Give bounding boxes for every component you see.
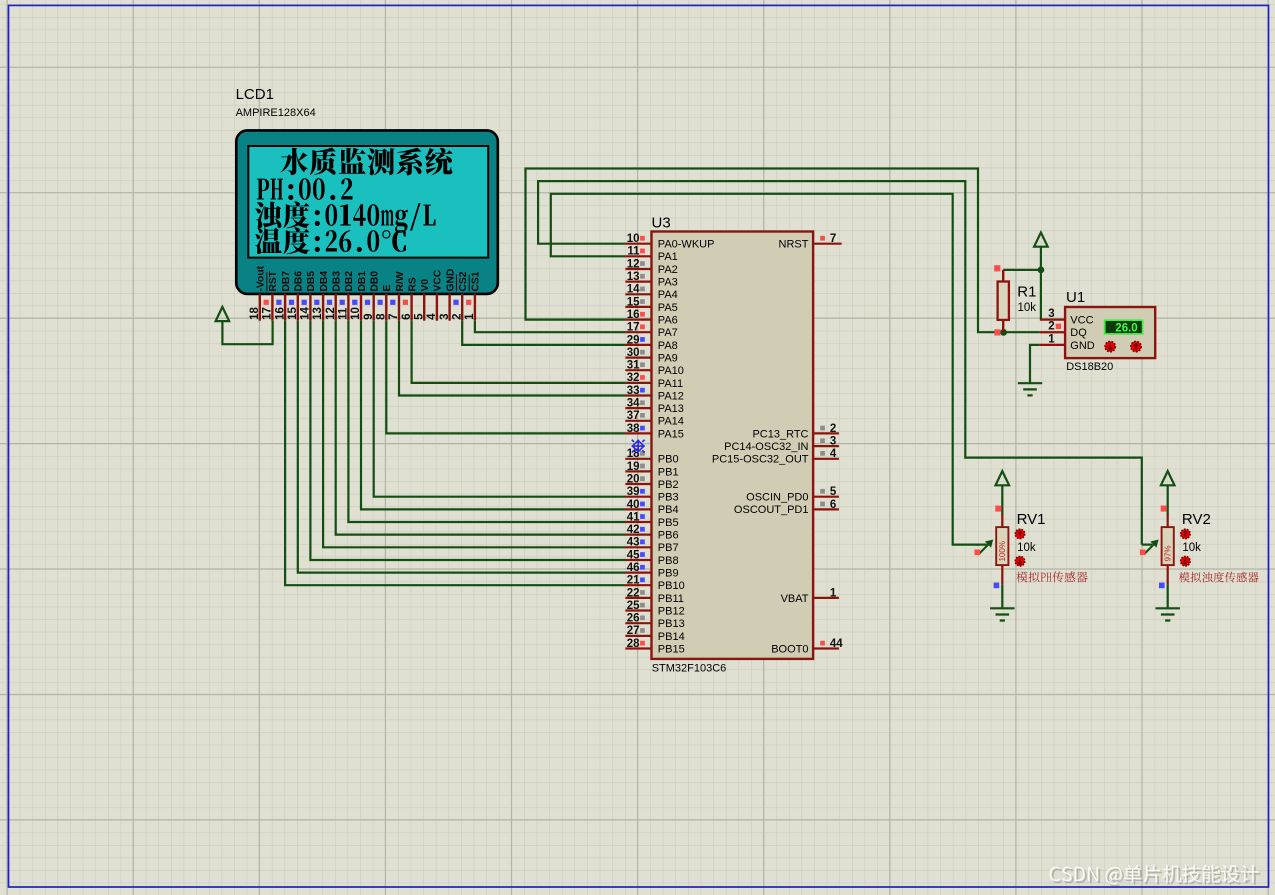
svg-text:39: 39 — [627, 486, 640, 498]
svg-text:PA5: PA5 — [658, 302, 678, 314]
svg-text:1: 1 — [830, 587, 837, 599]
svg-text:29: 29 — [627, 334, 640, 346]
svg-text:2: 2 — [1048, 321, 1054, 333]
svg-text:RS: RS — [407, 277, 418, 291]
svg-text:E: E — [382, 285, 393, 292]
svg-text:5: 5 — [413, 313, 425, 320]
RV1 button up — [1015, 529, 1025, 539]
svg-text:4: 4 — [426, 313, 438, 320]
svg-text:PA6: PA6 — [658, 315, 678, 327]
U3 pin 14 (PA4) — [625, 284, 677, 302]
svg-text:VBAT: VBAT — [781, 593, 809, 605]
svg-text:18: 18 — [249, 307, 261, 320]
svg-text:10k: 10k — [1182, 542, 1201, 554]
svg-text:28: 28 — [627, 638, 640, 650]
U1 pin 1 (GND) — [1040, 333, 1095, 352]
svg-text:PA0-WKUP: PA0-WKUP — [658, 239, 715, 251]
potentiometer RV2 10k — [1140, 506, 1211, 589]
svg-text:RST: RST — [268, 270, 279, 291]
U1 button down — [1105, 341, 1115, 351]
svg-text:45: 45 — [627, 549, 640, 561]
U3 pin 20 (PB2) — [625, 473, 678, 491]
wire LCD DB0 (pin 9) to U3 PB3 — [374, 321, 626, 497]
svg-text:-Vout: -Vout — [256, 265, 267, 291]
svg-text:40: 40 — [627, 499, 640, 511]
svg-text:R1: R1 — [1017, 284, 1036, 301]
svg-text:5: 5 — [830, 486, 837, 498]
U3 pin 12 (PA2) — [625, 258, 677, 276]
svg-text:CS2: CS2 — [458, 271, 469, 291]
svg-text:7: 7 — [830, 233, 836, 245]
svg-text:AMPIRE128X64: AMPIRE128X64 — [236, 107, 316, 119]
wire LCD RS (pin 6) to U3 PA11 — [412, 321, 626, 383]
svg-text:10k: 10k — [1018, 302, 1037, 314]
potentiometer RV1 10k — [975, 506, 1046, 589]
svg-text:PB9: PB9 — [658, 568, 679, 580]
svg-text:PB1: PB1 — [658, 466, 679, 478]
U3 pin 43 (PB7) — [625, 537, 678, 555]
U3 pin 18 (PB0) — [625, 448, 678, 466]
wire RV2 top power — [1167, 485, 1169, 515]
U3 pin 29 (PA8) — [625, 334, 677, 352]
svg-text:PB4: PB4 — [658, 504, 679, 516]
LCD1 pin 15 (DB6) — [287, 271, 305, 321]
U3 pin 3 (PC14-OSC32_IN) — [724, 436, 839, 454]
svg-text:11: 11 — [338, 307, 350, 320]
label RV1 caption — [1016, 571, 1087, 582]
svg-text:31: 31 — [627, 360, 640, 372]
wire LCD DB4 (pin 13) to U3 PB7 — [323, 321, 625, 548]
wire RV2 bottom to ground — [1167, 584, 1169, 608]
svg-text:DB5: DB5 — [306, 271, 317, 292]
wire LCD DB7 (pin 16) to U3 PB10 — [285, 321, 625, 586]
svg-text:10k: 10k — [1017, 542, 1036, 554]
svg-text:20: 20 — [627, 473, 640, 485]
svg-text:PA14: PA14 — [658, 416, 684, 428]
svg-text:6: 6 — [830, 499, 836, 511]
U3 pin 19 (PB1) — [625, 461, 678, 479]
ground (U1) — [1018, 383, 1042, 395]
origin marker — [632, 440, 645, 453]
U3 pin 4 (PC15-OSC32_OUT) — [712, 448, 839, 466]
U3 pin 17 (PA7) — [625, 322, 677, 340]
svg-text:DB6: DB6 — [294, 271, 305, 292]
RV2 button up — [1181, 529, 1191, 539]
svg-text:3: 3 — [1048, 308, 1054, 320]
svg-text:17: 17 — [262, 307, 274, 320]
svg-text:BOOT0: BOOT0 — [771, 643, 808, 655]
svg-text:33: 33 — [627, 385, 640, 397]
svg-text:DB7: DB7 — [281, 271, 292, 292]
svg-text:34: 34 — [627, 398, 640, 410]
U3 pin 45 (PB8) — [625, 549, 678, 567]
wire RST to power — [222, 321, 272, 345]
U3 pin 25 (PB12) — [625, 600, 684, 618]
svg-text:14: 14 — [300, 307, 312, 320]
svg-text:1: 1 — [1048, 333, 1055, 345]
wire U3 PA1 to RV1 wiper — [551, 194, 980, 545]
ground (RV1) — [990, 608, 1014, 620]
resistor R1 10k — [994, 265, 1036, 335]
svg-text:PC14-OSC32_IN: PC14-OSC32_IN — [724, 441, 808, 453]
U3 pin 26 (PB13) — [625, 613, 684, 631]
U3 pin 15 (PA5) — [625, 296, 677, 314]
U3 pin 40 (PB4) — [625, 499, 678, 516]
svg-text:DB0: DB0 — [370, 271, 381, 292]
wire LCD E (pin 8) to U3 PA15 — [386, 321, 625, 434]
U3 pin 7 (NRST) — [779, 233, 842, 251]
LCD1 pin 4 (VCC) — [426, 269, 444, 321]
wire LCD DB5 (pin 14) to U3 PB8 — [310, 321, 625, 560]
svg-text:PA7: PA7 — [658, 327, 678, 339]
U3 pin 30 (PA9) — [625, 347, 677, 365]
svg-text:NRST: NRST — [779, 239, 809, 251]
svg-text:4: 4 — [830, 448, 837, 460]
power symbol (RV2) — [1161, 471, 1175, 485]
svg-text:OSCOUT_PD1: OSCOUT_PD1 — [734, 504, 809, 516]
U3 pin 2 (PC13_RTC) — [752, 423, 838, 441]
LCD1 pin 9 (DB0) — [363, 271, 381, 321]
LCD1 pin 13 (DB4) — [312, 271, 330, 321]
svg-text:RV1: RV1 — [1017, 511, 1046, 528]
U3 pin 1 (VBAT) — [781, 587, 839, 605]
svg-text:PB6: PB6 — [658, 530, 679, 542]
svg-text:13: 13 — [627, 271, 640, 283]
LCD1 pin 18 (-Vout) — [249, 265, 267, 320]
svg-text:V0: V0 — [420, 279, 431, 292]
svg-text:3: 3 — [439, 313, 451, 319]
svg-text:100%: 100% — [998, 541, 1007, 561]
svg-text:R/W: R/W — [395, 271, 406, 291]
svg-text:26: 26 — [627, 613, 640, 625]
U1 button up — [1131, 341, 1141, 351]
svg-text:PA1: PA1 — [658, 251, 678, 263]
LCD1 pin 16 (DB7) — [274, 271, 292, 321]
svg-text:10: 10 — [350, 307, 362, 320]
svg-text:DB4: DB4 — [319, 271, 330, 292]
svg-text:LCD1: LCD1 — [236, 86, 274, 103]
svg-text:GND: GND — [1070, 340, 1095, 352]
svg-text:46: 46 — [627, 562, 640, 574]
U3 pin 11 (PA1) — [625, 246, 677, 264]
U1 display 26.0 — [1105, 320, 1143, 334]
svg-text:3: 3 — [830, 436, 836, 448]
svg-text:DB2: DB2 — [344, 271, 355, 292]
svg-text:PB7: PB7 — [658, 542, 679, 554]
svg-text:1: 1 — [464, 313, 476, 320]
svg-text:PA3: PA3 — [658, 277, 678, 289]
LCD1 pin 1 (CS1) — [464, 271, 482, 321]
svg-text:44: 44 — [830, 638, 843, 650]
svg-text:PA8: PA8 — [658, 340, 678, 352]
temperature sensor U1 DS18B20 — [1065, 289, 1155, 373]
svg-text:32: 32 — [627, 372, 640, 384]
wire RV1 bottom to ground — [1001, 584, 1003, 608]
svg-text:PC13_RTC: PC13_RTC — [752, 428, 808, 440]
power symbol (RV1) — [996, 471, 1010, 485]
svg-text:9: 9 — [363, 313, 375, 319]
svg-text:43: 43 — [627, 537, 640, 549]
svg-text:7: 7 — [388, 313, 400, 319]
power symbol (R1/U1 VCC) — [1034, 233, 1048, 247]
wire LCD CS1 (pin 1) to U3 PA7 — [475, 321, 626, 333]
U3 pin 6 (OSCOUT_PD1) — [734, 499, 839, 516]
svg-text:97%: 97% — [1163, 545, 1172, 561]
wire U1 GND to ground — [1030, 345, 1040, 383]
wire R1 top to power rail and U1 VCC — [1003, 269, 1041, 271]
svg-text:PA2: PA2 — [658, 264, 678, 276]
wire RV1 top power — [1001, 485, 1003, 515]
svg-text:GND: GND — [445, 269, 456, 292]
U3 pin 10 (PA0-WKUP) — [625, 233, 714, 251]
LCD1 pin 8 (E) — [376, 285, 394, 321]
wire LCD CS2 (pin 2) to U3 PA8 — [462, 321, 625, 345]
svg-text:PA4: PA4 — [658, 289, 678, 301]
RV1 button down — [1015, 556, 1025, 566]
U3 pin 38 (PA15) — [625, 423, 683, 441]
svg-text:PB5: PB5 — [658, 517, 679, 529]
label RV2 caption — [1179, 572, 1259, 583]
svg-text:17: 17 — [627, 322, 640, 334]
svg-text:PB15: PB15 — [658, 643, 685, 655]
U3 pin 34 (PA13) — [625, 398, 683, 416]
svg-text:15: 15 — [627, 296, 640, 308]
svg-text:U3: U3 — [652, 215, 671, 232]
svg-text:8: 8 — [376, 313, 388, 320]
svg-text:19: 19 — [627, 461, 640, 473]
svg-text:2: 2 — [830, 423, 836, 435]
microcontroller U3 STM32F103C6 — [652, 215, 814, 675]
LCD1 pin 7 (R/W) — [388, 271, 406, 320]
svg-text:25: 25 — [627, 600, 640, 612]
junction R1-top / power / VCC — [1038, 267, 1045, 274]
svg-text:13: 13 — [312, 307, 324, 320]
U3 pin 16 (PA6) — [625, 309, 677, 327]
wire U3 PA0 to RV2 wiper — [538, 181, 1142, 544]
svg-text:2: 2 — [451, 313, 463, 319]
svg-text:DB1: DB1 — [357, 271, 368, 292]
svg-text:PB8: PB8 — [658, 555, 679, 567]
svg-text:PA11: PA11 — [658, 378, 683, 390]
svg-text:RV2: RV2 — [1182, 511, 1211, 528]
LCD1 pin 11 (DB2) — [338, 271, 356, 321]
U1 pin 3 (VCC) — [1040, 308, 1094, 327]
LCD1 pin 12 (DB3) — [325, 271, 343, 321]
svg-text:14: 14 — [627, 284, 640, 296]
svg-text:CS1: CS1 — [471, 271, 482, 291]
svg-text:10: 10 — [627, 233, 640, 245]
svg-text:PB0: PB0 — [658, 454, 679, 466]
svg-text:U1: U1 — [1066, 289, 1085, 306]
svg-text:PB10: PB10 — [658, 580, 685, 592]
svg-text:OSCIN_PD0: OSCIN_PD0 — [746, 492, 808, 504]
svg-text:41: 41 — [627, 511, 640, 523]
svg-text:PA15: PA15 — [658, 428, 684, 440]
svg-text:PB11: PB11 — [658, 593, 684, 605]
U3 pin 42 (PB6) — [625, 524, 678, 542]
svg-text:DS18B20: DS18B20 — [1066, 361, 1113, 373]
U3 pin 5 (OSCIN_PD0) — [746, 486, 839, 504]
svg-text:42: 42 — [627, 524, 640, 536]
svg-text:21: 21 — [627, 575, 640, 587]
U3 pin 33 (PA12) — [625, 385, 683, 403]
svg-text:30: 30 — [627, 347, 640, 359]
svg-text:PB13: PB13 — [658, 618, 685, 630]
RV2 button down — [1181, 556, 1191, 566]
U1 pin 2 (DQ) — [1040, 321, 1087, 340]
LCD1 pin 3 (GND) — [439, 269, 457, 321]
U3 pin 41 (PB5) — [625, 511, 678, 529]
wire U3 PA6 to U1 DQ net — [526, 169, 1040, 333]
U3 pin 31 (PA10) — [625, 360, 683, 378]
svg-text:26.0: 26.0 — [1115, 323, 1137, 335]
U3 pin 46 (PB9) — [625, 562, 678, 580]
junction R1-bottom / DQ net — [1000, 329, 1007, 336]
svg-text:12: 12 — [325, 307, 337, 320]
svg-text:22: 22 — [627, 587, 640, 599]
svg-text:STM32F103C6: STM32F103C6 — [652, 663, 727, 675]
svg-text:PB14: PB14 — [658, 631, 685, 643]
LCD1 pin 5 (V0) — [413, 279, 431, 321]
wire LCD DB2 (pin 11) to U3 PB5 — [348, 321, 625, 522]
wire LCD DB3 (pin 12) to U3 PB6 — [336, 321, 626, 535]
LCD1 pin 14 (DB5) — [300, 271, 318, 321]
svg-text:12: 12 — [627, 258, 640, 270]
svg-text:PB3: PB3 — [658, 492, 679, 504]
svg-text:38: 38 — [627, 423, 640, 435]
svg-text:37: 37 — [627, 410, 640, 422]
U3 pin 28 (PB15) — [625, 638, 684, 656]
svg-text:PA9: PA9 — [658, 352, 678, 364]
svg-text:DB3: DB3 — [332, 271, 343, 292]
svg-text:PA13: PA13 — [658, 403, 684, 415]
LCD1 pin 6 (RS) — [401, 277, 419, 321]
U3 pin 22 (PB11) — [625, 587, 683, 605]
svg-text:VCC: VCC — [1070, 315, 1093, 327]
svg-text:VCC: VCC — [433, 269, 444, 291]
U3 pin 13 (PA3) — [625, 271, 677, 289]
U3 pin 27 (PB14) — [625, 625, 684, 643]
svg-text:11: 11 — [627, 246, 640, 258]
U3 pin 44 (BOOT0) — [771, 638, 843, 656]
svg-text:15: 15 — [287, 307, 299, 320]
wire LCD DB6 (pin 15) to U3 PB9 — [298, 321, 626, 573]
U3 pin 32 (PA11) — [625, 372, 683, 390]
ground (RV2) — [1156, 608, 1180, 620]
LCD1 pin 2 (CS2) — [451, 271, 469, 321]
svg-text:PB2: PB2 — [658, 479, 679, 491]
U3 pin 37 (PA14) — [625, 410, 683, 428]
svg-text:PA12: PA12 — [658, 390, 684, 402]
LCD1 pin 10 (DB1) — [350, 271, 368, 321]
wire LCD R/W (pin 7) to U3 PA12 — [399, 321, 625, 396]
svg-text:27: 27 — [627, 625, 640, 637]
svg-text:DQ: DQ — [1070, 327, 1087, 339]
svg-text:PA10: PA10 — [658, 365, 684, 377]
LCD LCD1 AMPIRE128X64 — [236, 86, 498, 294]
watermark — [1050, 865, 1261, 887]
svg-text:PB12: PB12 — [658, 605, 685, 617]
U3 pin 21 (PB10) — [625, 575, 684, 593]
wire LCD DB1 (pin 10) to U3 PB4 — [361, 321, 625, 510]
svg-text:16: 16 — [627, 309, 640, 321]
power symbol (LCD RST) — [216, 307, 230, 321]
LCD1 pin 17 (RST) — [262, 270, 280, 321]
svg-text:PC15-OSC32_OUT: PC15-OSC32_OUT — [712, 454, 809, 466]
svg-text:16: 16 — [274, 307, 286, 320]
U3 pin 39 (PB3) — [625, 486, 678, 504]
svg-text:6: 6 — [401, 313, 413, 319]
